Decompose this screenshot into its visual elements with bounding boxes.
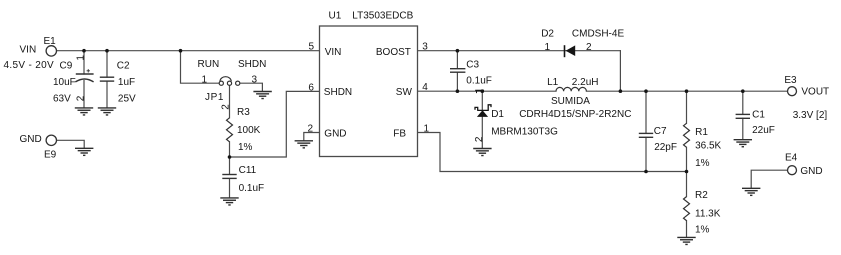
svg-text:R3: R3 bbox=[237, 107, 250, 118]
svg-text:2: 2 bbox=[76, 95, 87, 101]
svg-text:CDRH4D15/SNP-2R2NC: CDRH4D15/SNP-2R2NC bbox=[519, 109, 631, 120]
node BOOST/C3 bbox=[456, 49, 460, 53]
svg-text:1: 1 bbox=[424, 123, 430, 134]
svg-text:VOUT: VOUT bbox=[801, 86, 829, 97]
svg-text:GND: GND bbox=[800, 166, 822, 177]
svg-text:4.5V - 20V: 4.5V - 20V bbox=[4, 60, 54, 71]
svg-text:L1: L1 bbox=[547, 77, 559, 88]
jumper JP1 bbox=[198, 59, 267, 110]
wire JP1 pin2 down to R3 bbox=[229, 85, 231, 118]
svg-text:R2: R2 bbox=[695, 190, 708, 201]
wire E4 to ground bbox=[751, 170, 787, 188]
wire R2 top bbox=[686, 172, 688, 197]
svg-text:1: 1 bbox=[545, 42, 551, 53]
wire D1 anode to ground bbox=[481, 117, 483, 148]
svg-text:VIN: VIN bbox=[20, 44, 37, 55]
svg-text:22uF: 22uF bbox=[752, 125, 775, 136]
ground C9 bbox=[75, 108, 93, 115]
svg-text:GND: GND bbox=[20, 134, 42, 145]
node VIN/C9 bbox=[82, 49, 86, 53]
node SHDN/R3/C11 bbox=[228, 155, 232, 159]
svg-text:2: 2 bbox=[586, 42, 592, 53]
svg-text:1uF: 1uF bbox=[118, 77, 135, 88]
svg-text:2: 2 bbox=[308, 123, 314, 134]
svg-text:E3: E3 bbox=[784, 75, 797, 86]
svg-text:E4: E4 bbox=[785, 152, 798, 163]
svg-text:SW: SW bbox=[396, 87, 413, 98]
node SW/D1 bbox=[481, 89, 485, 93]
wire C9 bottom to ground bbox=[83, 81, 85, 108]
svg-text:E1: E1 bbox=[44, 36, 57, 47]
svg-text:SHDN: SHDN bbox=[238, 59, 266, 70]
wire U1 GND pin2 to ground bbox=[304, 133, 320, 141]
svg-text:0.1uF: 0.1uF bbox=[239, 183, 265, 194]
svg-text:SUMIDA: SUMIDA bbox=[551, 96, 590, 107]
node VIN/C2 bbox=[105, 49, 109, 53]
svg-text:2: 2 bbox=[474, 136, 485, 142]
svg-text:E9: E9 bbox=[44, 150, 57, 161]
C9 plus polarity mark bbox=[87, 69, 90, 72]
op-amp U1 LT3503EDCB body bbox=[308, 11, 430, 157]
svg-text:36.5K: 36.5K bbox=[695, 141, 721, 152]
wire C7 top bbox=[645, 91, 647, 133]
svg-text:VIN: VIN bbox=[325, 47, 342, 58]
D1 pin 3 label (rotated, merged with wire) bbox=[475, 90, 484, 93]
svg-text:63V: 63V bbox=[53, 93, 71, 104]
svg-text:RUN: RUN bbox=[198, 59, 220, 70]
node VOUT/C7 bbox=[644, 89, 648, 93]
ground D1 bbox=[473, 149, 491, 156]
capacitor C1 bbox=[736, 109, 775, 135]
resistor R2 bbox=[684, 190, 721, 235]
wire C3 bottom bbox=[456, 72, 458, 91]
svg-text:1%: 1% bbox=[238, 142, 253, 153]
svg-text:2.2uH: 2.2uH bbox=[572, 77, 599, 88]
ground U1 GND pin bbox=[295, 141, 313, 148]
svg-text:MBRM130T3G: MBRM130T3G bbox=[491, 127, 558, 138]
diode D1 MBRM130T3G (schottky) bbox=[474, 90, 558, 142]
terminal E3 VOUT bbox=[784, 75, 829, 97]
wire D1 cathode bbox=[481, 91, 483, 110]
svg-text:3: 3 bbox=[422, 42, 428, 53]
wire E9 to ground bbox=[56, 140, 84, 148]
ground E4 bbox=[742, 188, 760, 195]
wire C11 bottom to ground bbox=[229, 179, 231, 198]
svg-text:5: 5 bbox=[309, 42, 315, 53]
capacitor C3 bbox=[450, 60, 492, 87]
svg-text:C7: C7 bbox=[654, 126, 667, 137]
D1 schottky cathode bar bbox=[475, 105, 491, 111]
wire C3 top bbox=[456, 51, 458, 69]
wire C2 top bbox=[106, 51, 108, 77]
capacitor C9 bbox=[53, 55, 94, 105]
wire C1 top bbox=[742, 91, 744, 114]
wire R3 bottom to SHDN node bbox=[229, 142, 231, 157]
svg-text:4: 4 bbox=[422, 82, 428, 93]
wire FB U1 pin1 to divider node bbox=[418, 133, 687, 172]
node FB/C7 bbox=[644, 170, 648, 174]
svg-text:U1: U1 bbox=[329, 11, 342, 22]
wire C7 bottom to FB rail bbox=[645, 137, 647, 171]
svg-text:6: 6 bbox=[308, 82, 314, 93]
ground C11 bbox=[220, 198, 238, 205]
wire R1 top bbox=[686, 91, 688, 123]
svg-text:1%: 1% bbox=[695, 225, 710, 236]
node FB/R1/R2 bbox=[685, 170, 689, 174]
node SW/C3 bbox=[456, 89, 460, 93]
node VOUT/C1 bbox=[741, 89, 745, 93]
wire C2 bottom to ground bbox=[106, 81, 108, 108]
svg-text:C3: C3 bbox=[466, 60, 479, 71]
svg-text:R1: R1 bbox=[695, 127, 708, 138]
wire C9 top bbox=[83, 51, 85, 74]
svg-text:C11: C11 bbox=[239, 165, 257, 176]
ground C1 bbox=[734, 140, 752, 147]
node SW/D2 bbox=[619, 89, 623, 93]
svg-text:C9: C9 bbox=[60, 60, 73, 71]
svg-text:SHDN: SHDN bbox=[324, 87, 352, 98]
wire SW rail U1 pin4 to L1 bbox=[418, 90, 557, 92]
svg-text:1%: 1% bbox=[695, 158, 710, 169]
terminal E9 bbox=[20, 134, 57, 160]
svg-text:1: 1 bbox=[202, 75, 208, 86]
terminal E1 bbox=[20, 36, 57, 56]
wire VIN rail E1 to U1 pin5 bbox=[57, 50, 320, 52]
svg-text:JP1: JP1 bbox=[205, 92, 224, 103]
ground R2 bbox=[677, 237, 695, 244]
wire C1 bottom to ground bbox=[742, 118, 744, 139]
terminal E4 GND bbox=[785, 152, 823, 177]
wire D2 cathode corner down to SW rail bbox=[619, 51, 621, 91]
capacitor C11 bbox=[222, 165, 264, 194]
resistor R1 bbox=[684, 123, 722, 169]
svg-text:BOOST: BOOST bbox=[376, 47, 411, 58]
svg-text:22pF: 22pF bbox=[654, 142, 677, 153]
ground JP1 pin3 bbox=[253, 92, 271, 99]
wire SHDN node to C11 bbox=[229, 157, 231, 174]
wire BOOST rail U1 pin3 to D2 bbox=[418, 50, 621, 52]
svg-text:C1: C1 bbox=[752, 109, 765, 120]
svg-text:D2: D2 bbox=[541, 29, 554, 40]
svg-text:11.3K: 11.3K bbox=[695, 208, 721, 219]
wire RUN drop from VIN rail bbox=[181, 51, 220, 83]
ground E9 bbox=[75, 148, 93, 155]
svg-text:25V: 25V bbox=[118, 93, 136, 104]
svg-text:100K: 100K bbox=[237, 125, 261, 136]
svg-text:3.3V [2]: 3.3V [2] bbox=[793, 110, 828, 121]
JP1 shunt arc bbox=[220, 77, 231, 82]
capacitor C7 bbox=[639, 126, 677, 153]
capacitor C2 bbox=[100, 60, 136, 104]
diode D2 CMDSH-4E bbox=[541, 29, 624, 58]
wire JP1 pin3 to ground bbox=[240, 83, 262, 91]
svg-text:D1: D1 bbox=[491, 109, 504, 120]
node junction dots bbox=[82, 49, 744, 173]
svg-text:3: 3 bbox=[252, 74, 258, 85]
svg-text:0.1uF: 0.1uF bbox=[466, 75, 492, 86]
inductor L1 bbox=[519, 77, 631, 120]
svg-text:2: 2 bbox=[220, 104, 231, 110]
wire L1 to VOUT rail E3 bbox=[586, 90, 787, 92]
svg-text:GND: GND bbox=[324, 128, 346, 139]
svg-text:FB: FB bbox=[393, 129, 406, 140]
svg-text:10uF: 10uF bbox=[53, 77, 76, 88]
wire R1 bottom to FB node bbox=[686, 147, 688, 171]
node VOUT/R1 bbox=[685, 89, 689, 93]
wire SHDN node to U1 pin6 bbox=[230, 91, 320, 157]
svg-text:CMDSH-4E: CMDSH-4E bbox=[572, 29, 625, 40]
node VIN/RUN bbox=[179, 49, 183, 53]
svg-text:LT3503EDCB: LT3503EDCB bbox=[352, 11, 413, 22]
wire R2 bottom to ground bbox=[686, 221, 688, 238]
ground C2 bbox=[98, 108, 116, 115]
resistor R3 bbox=[227, 107, 261, 153]
svg-text:1: 1 bbox=[76, 55, 87, 61]
svg-text:C2: C2 bbox=[117, 60, 130, 71]
